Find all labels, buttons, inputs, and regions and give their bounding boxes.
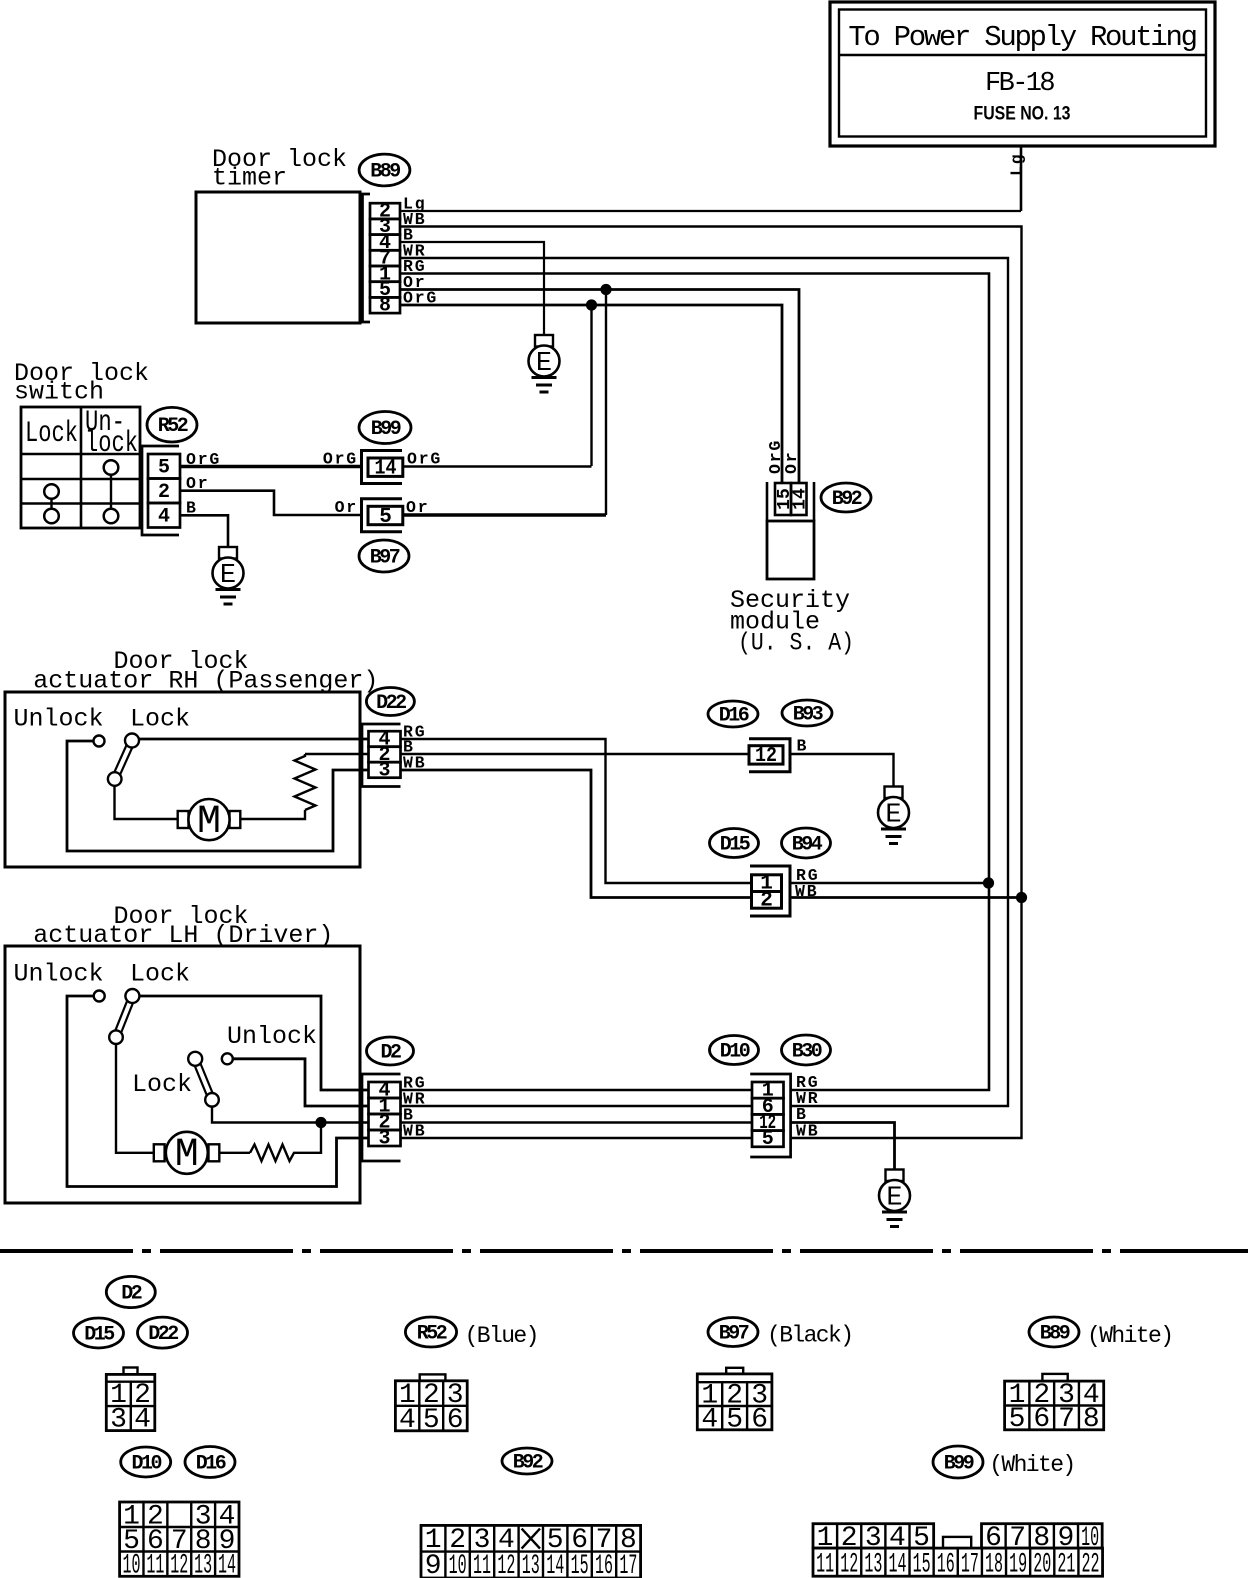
D22 connector pin boxes: pins 4,2,3	[369, 731, 401, 747]
svg-text:12: 12	[170, 1551, 188, 1578]
svg-text:R52: R52	[417, 1323, 447, 1346]
power supply routing box FB-18	[830, 2, 1215, 146]
RH wire: resistor to pin2	[304, 754, 306, 757]
svg-text:13: 13	[864, 1550, 882, 1578]
ellipse B92 (bottom)	[502, 1448, 552, 1475]
svg-text:4: 4	[701, 1405, 718, 1436]
door lock actuator RH box	[5, 692, 360, 867]
svg-text:8: 8	[1083, 1404, 1100, 1435]
LH switch lever 2	[188, 1052, 219, 1107]
LH wire: pivot1 to motor	[116, 1044, 154, 1153]
connector face view D10/D16 (3 rows, 14 pins)	[120, 1502, 239, 1578]
svg-text:3: 3	[378, 1128, 390, 1151]
svg-text:3: 3	[378, 759, 390, 782]
LH wire: motor to resistor	[219, 1152, 250, 1154]
svg-text:M: M	[175, 1133, 199, 1178]
svg-text:M: M	[197, 800, 221, 845]
svg-text:16: 16	[595, 1551, 613, 1578]
inline connector B97 pin 5	[362, 499, 403, 532]
svg-text:D16: D16	[196, 1453, 226, 1476]
ellipse B89 (bottom)	[1029, 1317, 1079, 1347]
junction dot WB trunk	[1016, 892, 1027, 903]
ellipse D15 (bottom)	[74, 1318, 124, 1348]
svg-text:6: 6	[751, 1405, 768, 1436]
wire B: D22 pin2 to D16/B93 pin12	[401, 753, 750, 755]
svg-text:lock: lock	[85, 427, 138, 461]
ground E right of B93	[878, 787, 909, 844]
connector ellipse B93	[782, 700, 832, 727]
connector ellipse B30	[782, 1035, 831, 1065]
timer connector bracket	[363, 194, 371, 322]
door lock switch table R52	[21, 406, 140, 528]
wire WR: timer pin7 to B30 pin6	[400, 258, 1008, 1106]
ellipse D10 (bottom)	[121, 1447, 171, 1477]
timer connector pin boxes B89: pins 2,3,4,7,1,5,8	[370, 203, 400, 219]
LH switch lever 1	[109, 989, 139, 1044]
connector face view R52 (2x3)	[395, 1374, 467, 1436]
svg-text:14: 14	[375, 458, 397, 481]
svg-text:18: 18	[985, 1550, 1003, 1578]
wire B: switch pin4 to ground	[180, 515, 228, 547]
contact link line lock	[50, 499, 52, 509]
wire B: timer pin4 to ground	[400, 242, 544, 335]
RH wire: unlock contact to pin3 via bottom rail	[67, 741, 369, 851]
svg-text:2: 2	[158, 481, 170, 504]
switch connector pin boxes R52: pins 5,2,4	[148, 454, 180, 479]
svg-text:FB-18: FB-18	[985, 69, 1054, 99]
svg-text:12: 12	[840, 1550, 858, 1578]
LH wire: unlock contact to pin3 via bottom rail	[67, 996, 369, 1187]
connector ellipse B94	[782, 828, 831, 858]
door lock timer box	[196, 192, 360, 323]
svg-text:10: 10	[123, 1551, 141, 1578]
svg-text:(Blue): (Blue)	[465, 1323, 538, 1349]
wire OrG: timer pin8 to security module pin15	[400, 305, 782, 483]
svg-text:E: E	[885, 801, 901, 831]
switch contact circle lock row3	[44, 484, 59, 499]
svg-text:21: 21	[1057, 1550, 1075, 1578]
svg-text:Unlock: Unlock	[14, 960, 104, 989]
resistor RH (vertical zigzag)	[295, 756, 316, 810]
ground E below switch	[213, 547, 244, 604]
wire Or: switch pin2 to B97	[180, 491, 362, 515]
svg-text:13: 13	[194, 1551, 212, 1578]
svg-text:Lock: Lock	[132, 1070, 192, 1099]
connector ellipse D10	[710, 1036, 759, 1065]
security module connector B92 pins 15,14	[767, 482, 814, 521]
connector ellipse D15	[710, 829, 759, 858]
switch contact circle unlock row2	[104, 460, 119, 475]
junction dot B branch	[315, 1117, 326, 1128]
svg-text:B92: B92	[832, 488, 862, 511]
connector ellipse B89	[359, 154, 410, 186]
RH wire: lock contact to pin4	[139, 738, 369, 741]
LH unlock terminal circle	[94, 991, 105, 1002]
connector ellipse D16	[708, 701, 758, 728]
svg-text:6: 6	[1033, 1404, 1050, 1435]
svg-text:switch: switch	[14, 378, 104, 407]
RH wire: motor to resistor	[240, 810, 305, 819]
svg-text:D2: D2	[121, 1283, 142, 1306]
D2 connector bracket	[362, 1074, 401, 1161]
junction dot on Or wire	[600, 284, 611, 295]
wire Or: B97 to junction	[403, 513, 606, 516]
D2 connector pin boxes: pins 4,1,2,3	[369, 1082, 401, 1098]
connector ellipse B92	[821, 483, 871, 512]
svg-text:B97: B97	[719, 1323, 749, 1346]
svg-text:D15: D15	[84, 1324, 114, 1347]
connector face view B89 (2x4)	[1005, 1374, 1104, 1435]
svg-text:Lock: Lock	[130, 705, 190, 734]
wire WB: timer pin3 down right side to B30 pin5	[400, 227, 1022, 1139]
svg-text:R52: R52	[158, 415, 188, 438]
ellipse D2 (bottom)	[106, 1276, 155, 1307]
svg-text:B94: B94	[792, 834, 823, 857]
LH wire: unlock2 contact to pin1	[233, 1059, 369, 1106]
connector ellipse D22	[366, 688, 414, 716]
svg-text:WB: WB	[796, 1122, 819, 1141]
wire RG: B94 to RG trunk	[790, 882, 989, 884]
wire WB: D2 pin3 to D10 pin5	[401, 1137, 753, 1139]
svg-text:B99: B99	[371, 418, 401, 441]
ellipse D16 (bottom)	[185, 1447, 235, 1478]
RH unlock terminal circle	[94, 736, 105, 747]
svg-text:5: 5	[726, 1405, 743, 1436]
junction dot on OrG wire	[586, 299, 597, 310]
wire B: D2 pin2 to D10 pin12	[401, 1121, 753, 1123]
connector ellipse B99	[359, 412, 411, 444]
svg-text:3: 3	[110, 1405, 127, 1436]
svg-text:B: B	[797, 737, 809, 756]
svg-text:Or: Or	[335, 498, 358, 517]
LH wire: lock contact to pin4	[139, 996, 368, 1090]
svg-text:12: 12	[497, 1551, 515, 1578]
connector face view B97 (2x3)	[697, 1368, 772, 1436]
security module box	[767, 521, 814, 579]
svg-text:E: E	[536, 349, 552, 379]
svg-text:(White): (White)	[989, 1452, 1074, 1478]
svg-text:OrG: OrG	[323, 450, 358, 469]
wire B: B93 to ground	[790, 754, 894, 787]
svg-text:11: 11	[816, 1550, 834, 1578]
svg-text:D2: D2	[380, 1042, 401, 1065]
svg-text:D16: D16	[719, 705, 749, 728]
wire WB: B94 to WB trunk	[790, 896, 1022, 899]
resistor LH (horizontal zigzag) and branch up	[250, 1123, 321, 1162]
svg-text:FUSE NO. 13: FUSE NO. 13	[974, 104, 1071, 125]
svg-text:22: 22	[1081, 1550, 1099, 1578]
svg-text:13: 13	[522, 1551, 540, 1578]
svg-text:5: 5	[762, 1128, 774, 1151]
svg-text:7: 7	[1058, 1404, 1075, 1435]
wire Lg: timer pin2 to fuse drop	[400, 210, 1021, 212]
wire RG: D2 pin4 to D10 pin1	[401, 1089, 753, 1091]
svg-text:E: E	[886, 1184, 902, 1214]
connector face view D2/D15/D22 (2x2)	[106, 1368, 155, 1436]
wire OrG: switch pin5 to B99	[180, 465, 362, 468]
wire WB: D22 pin3 to D15 pin2	[401, 770, 752, 898]
svg-text:4: 4	[134, 1405, 151, 1436]
dashed separator line	[0, 1249, 1248, 1253]
switch contact circle unlock row4	[104, 509, 119, 524]
svg-text:5: 5	[379, 506, 392, 529]
door lock actuator LH box	[5, 946, 360, 1203]
connector face view B99 (22 pins)	[813, 1523, 1103, 1578]
svg-text:4: 4	[158, 506, 170, 529]
ground E below B30	[879, 1170, 910, 1227]
wire OrG branch down to B99	[590, 305, 592, 466]
svg-text:B99: B99	[944, 1453, 974, 1476]
svg-text:B92: B92	[513, 1452, 543, 1475]
wire B: B30 pin12 to ground	[791, 1123, 895, 1170]
junction dot RG trunk	[983, 877, 994, 888]
svg-text:E: E	[220, 561, 236, 591]
svg-text:12: 12	[755, 745, 777, 768]
svg-text:D10: D10	[131, 1453, 161, 1476]
svg-text:4: 4	[399, 1405, 416, 1436]
wire RG: D22 pin4 to D15 pin1	[401, 739, 752, 883]
svg-text:Lock: Lock	[25, 417, 78, 451]
svg-text:D22: D22	[148, 1323, 178, 1346]
D10/B30 connector pin boxes: pins 1,6,12,5	[752, 1082, 784, 1098]
svg-text:15: 15	[571, 1551, 589, 1578]
svg-text:14: 14	[888, 1550, 906, 1578]
motor M (RH)	[178, 799, 241, 845]
svg-text:14: 14	[218, 1551, 236, 1578]
svg-text:14: 14	[546, 1551, 564, 1578]
svg-text:9: 9	[425, 1551, 442, 1578]
connector face view B92 (2x9 with keyway X)	[421, 1525, 641, 1578]
switch contact circle lock row4	[44, 509, 59, 524]
svg-text:Unlock: Unlock	[14, 705, 104, 734]
svg-text:6: 6	[447, 1405, 464, 1436]
D10/B30 connector bracket	[750, 1074, 790, 1157]
svg-text:Unlock: Unlock	[227, 1022, 317, 1051]
wire Lg drop from fuse box	[1020, 146, 1023, 211]
RH switch lever	[108, 734, 139, 786]
svg-text:B30: B30	[792, 1041, 822, 1064]
wire Or branch down to B97	[605, 290, 607, 516]
svg-text:5: 5	[158, 457, 170, 480]
RH wire: pivot to motor	[115, 786, 179, 819]
svg-text:10: 10	[449, 1551, 467, 1578]
svg-text:11: 11	[146, 1551, 164, 1578]
inline connector D15/B94 pins 1,2	[750, 866, 790, 916]
inline connector B99 pin 14	[362, 451, 403, 484]
wire OrG: B99 to junction	[403, 465, 592, 468]
svg-text:Or: Or	[782, 451, 801, 474]
ellipse R52 (bottom)	[405, 1317, 456, 1347]
svg-text:B89: B89	[1040, 1323, 1070, 1346]
svg-text:(Black): (Black)	[767, 1323, 852, 1349]
svg-text:15: 15	[913, 1550, 931, 1578]
connector ellipse R52	[147, 407, 197, 442]
ellipse B97 (bottom)	[708, 1318, 758, 1347]
svg-text:20: 20	[1033, 1550, 1051, 1578]
svg-text:D15: D15	[720, 834, 750, 857]
connector ellipse B97	[359, 540, 409, 572]
ellipse D22 (bottom)	[138, 1317, 188, 1348]
svg-text:16: 16	[937, 1550, 955, 1578]
switch connector bracket	[142, 446, 179, 535]
svg-text:11: 11	[473, 1551, 491, 1578]
svg-text:14: 14	[791, 488, 811, 510]
svg-text:D10: D10	[720, 1041, 750, 1064]
motor M (LH)	[154, 1132, 220, 1178]
ground E below timer	[529, 335, 560, 392]
svg-text:timer: timer	[212, 164, 287, 193]
D22 connector bracket	[362, 724, 401, 787]
svg-text:17: 17	[619, 1551, 637, 1578]
inline connector D16/B93 pin 12	[749, 739, 790, 772]
svg-text:5: 5	[423, 1405, 440, 1436]
svg-text:Lg: Lg	[1008, 153, 1027, 176]
wire Or: timer pin5 to security module pin14	[400, 290, 799, 484]
LH wire: pivot2 to pin2	[212, 1107, 369, 1123]
svg-text:To Power Supply Routing: To Power Supply Routing	[848, 21, 1195, 54]
svg-text:Lock: Lock	[130, 960, 190, 989]
connector ellipse D2	[367, 1037, 414, 1065]
wire RG: timer pin1 to B30 pin1	[400, 274, 989, 1091]
svg-text:8: 8	[379, 295, 391, 318]
svg-text:19: 19	[1009, 1550, 1027, 1578]
svg-text:5: 5	[1009, 1404, 1026, 1435]
svg-text:(U. S. A): (U. S. A)	[738, 629, 854, 658]
contact link line unlock	[110, 475, 112, 509]
ellipse B99 (bottom)	[933, 1446, 983, 1478]
svg-text:B97: B97	[370, 547, 400, 570]
wire WR: D2 pin1 to D10 pin6	[401, 1105, 753, 1107]
svg-text:(White): (White)	[1087, 1323, 1172, 1349]
LH unlock2 terminal circle	[222, 1053, 233, 1064]
svg-text:D22: D22	[376, 692, 406, 715]
svg-text:B89: B89	[370, 161, 400, 184]
svg-text:B93: B93	[793, 704, 823, 727]
svg-text:2: 2	[760, 889, 773, 912]
svg-text:17: 17	[961, 1550, 979, 1578]
